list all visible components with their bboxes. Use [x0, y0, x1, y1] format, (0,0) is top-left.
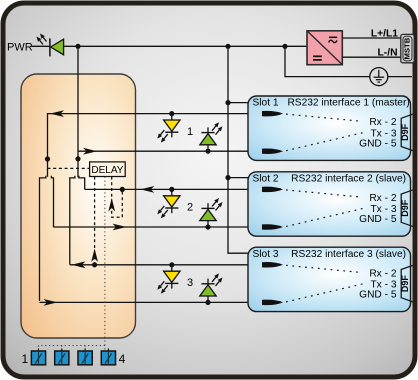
wire power rail [64, 45, 308, 47]
dashed wire DELAY to Rx3 [94, 177, 96, 265]
svg-text:D9F: D9F [400, 123, 410, 141]
svg-text:RS232 interface 1 (master): RS232 interface 1 (master) [287, 98, 409, 109]
LED PWR green [37, 34, 64, 57]
svg-text:1: 1 [187, 126, 193, 138]
arrowhead Rx1 into electronics [50, 110, 64, 117]
arrowhead Rx3 into electronics [72, 261, 86, 268]
power supply unit U1 (AC/DC converter) [307, 31, 342, 65]
svg-text:1: 1 [21, 352, 28, 366]
svg-text:GND - 5: GND - 5 [359, 214, 397, 225]
dashed link Rx2 arrow to pin 2 label [286, 190, 362, 197]
junction node rail / internal supply [75, 44, 80, 49]
terminal 2 (screw terminal) [55, 348, 69, 364]
junction dot LED1 yellow on Rx1 line [169, 111, 174, 116]
ground (protective earth) symbol [370, 68, 388, 86]
wire ground to frame [388, 76, 412, 78]
arrowhead Tx1 internal [83, 148, 97, 155]
arrowhead Tx3 internal [44, 299, 58, 306]
LED 1 green (send activity) [200, 122, 223, 151]
arrowhead into slot 3 Tx [262, 300, 283, 306]
svg-text:L-/N: L-/N [377, 47, 397, 58]
dashed link Rx3 arrow to pin 2 label [286, 265, 362, 272]
wire slot supply bus vertical [228, 46, 249, 253]
svg-text:L+/L1: L+/L1 [371, 29, 398, 40]
slot 2 RS232 interface box [248, 172, 411, 236]
terminal 3 (screw terminal) [78, 348, 92, 364]
arrowhead up on DELAY-Rx3 link [91, 249, 98, 263]
LED 2 yellow (bus activity) [157, 189, 180, 218]
junction dot slot 1 supply [225, 100, 230, 105]
arrowhead into slot 3 Rx [262, 262, 283, 268]
LED 1 yellow (bus activity) [157, 114, 180, 143]
wire Rx3 line [70, 264, 272, 266]
dashed link Tx2 arrow to pin 3 label [286, 208, 365, 226]
svg-text:Slot 3: Slot 3 [253, 249, 279, 260]
wire PWR label to LED [32, 45, 51, 47]
dotted wire DELAY to terminals [104, 177, 106, 351]
dashed wire to DELAY [48, 167, 90, 169]
wire Tx3 line [40, 301, 273, 303]
junction dot internal supply [75, 156, 80, 161]
slot 3 RS232 interface box [248, 247, 411, 311]
svg-text:GND - 5: GND - 5 [359, 290, 397, 301]
connector MSTB [401, 34, 414, 62]
isolation barrier channel A (left bracket) [40, 176, 46, 301]
wire ground branch vertical [285, 46, 370, 76]
junction dot LED1 green on Tx1 line [205, 149, 210, 154]
wire Tx2 line [54, 226, 273, 228]
dashed link Tx3 arrow to pin 3 label [286, 284, 365, 302]
slot 1 RS232 interface box [248, 96, 411, 160]
wire Rx2 line [85, 188, 272, 190]
junction dot LED2 yellow on Rx2 line [169, 187, 174, 192]
wire stub to slot 2 [228, 177, 249, 179]
dashed link Rx1 arrow to pin 2 label [286, 114, 362, 121]
arrowhead into slot 2 Tx [262, 224, 283, 230]
svg-text:Slot 1: Slot 1 [253, 98, 279, 109]
svg-text:RS232 interface 3 (slave): RS232 interface 3 (slave) [291, 249, 406, 260]
wire Tx1 line [78, 150, 272, 152]
LED 2 green (send activity) [200, 198, 223, 227]
svg-text:GND - 5: GND - 5 [359, 138, 397, 149]
svg-text:Rx - 2: Rx - 2 [369, 193, 397, 204]
svg-text:3: 3 [187, 277, 193, 289]
D9F connector symbol slot 2 [400, 190, 413, 227]
junction dot LED3 yellow on Rx3 line [169, 262, 174, 267]
svg-text:2: 2 [187, 202, 193, 214]
arrowhead into slot 1 Tx [262, 148, 283, 154]
wire stub to slot 1 [228, 102, 249, 104]
arrowhead Tx2 internal [113, 224, 127, 231]
isolation barrier channel B (right bracket) [70, 176, 75, 265]
wire internal supply vertical [77, 46, 79, 177]
junction node rail / ground branch [282, 44, 287, 49]
arrowhead up on DELAY-Rx2 link [108, 198, 115, 212]
wire L-/N [342, 56, 401, 58]
svg-text:D9F: D9F [400, 275, 410, 293]
junction dot Rx3 delay tap [92, 262, 97, 267]
junction dot Rx1 vertical [45, 156, 50, 161]
LED 3 green (send activity) [200, 273, 223, 302]
svg-text:RS232 interface 2 (slave): RS232 interface 2 (slave) [291, 173, 406, 184]
D9F connector symbol slot 3 [400, 265, 413, 302]
svg-text:PWR: PWR [7, 42, 33, 54]
svg-text:4: 4 [119, 352, 126, 366]
electronics block (peach) [21, 74, 136, 338]
D9F connector symbol slot 1 [400, 114, 413, 151]
dashed wire DELAY to Rx2 [112, 177, 123, 218]
svg-text:Slot 2: Slot 2 [253, 173, 279, 184]
svg-text:D9F: D9F [400, 199, 410, 217]
wire Rx1 line [48, 114, 273, 177]
svg-text:DELAY: DELAY [91, 165, 123, 176]
junction dot LED3 green on Tx3 line [205, 300, 210, 305]
svg-text:Rx - 2: Rx - 2 [369, 268, 397, 279]
junction dot slot 2 supply [225, 175, 230, 180]
junction dot LED2 green on Tx2 line [205, 224, 210, 229]
arrowhead into slot 2 Rx [262, 187, 283, 193]
junction dot Rx2 delay tap [120, 187, 125, 192]
dashed link Tx1 arrow to pin 3 label [286, 132, 365, 150]
LED 3 yellow (bus activity) [157, 265, 180, 294]
svg-text:Rx - 2: Rx - 2 [369, 117, 397, 128]
terminal 4 (screw terminal) [101, 348, 115, 364]
terminal 1 (screw terminal) [31, 348, 45, 364]
junction node rail / slot supply [225, 44, 230, 49]
arrowhead Rx2 into electronics [140, 186, 154, 193]
svg-text:MSTB: MSTB [403, 37, 412, 59]
arrowhead into slot 1 Rx [262, 111, 283, 117]
wire L+/L1 [342, 37, 401, 39]
DELAY block [90, 162, 126, 177]
